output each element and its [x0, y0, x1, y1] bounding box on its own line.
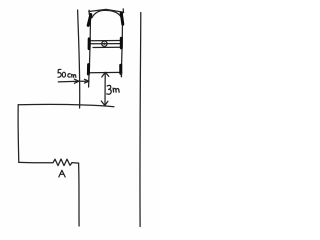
label 50cm : digit 0	[62, 72, 65, 77]
wire: loop bottom lead to resistor	[19, 161, 53, 163]
extension line below rear-right wheel	[120, 73, 122, 77]
wire: resistor to corner	[72, 162, 79, 165]
dimension 50cm lead line	[58, 80, 79, 83]
dimension 50cm arrowhead at car line	[85, 79, 89, 83]
dimension 3m top arrowhead	[102, 72, 109, 77]
axle line upper	[91, 40, 120, 42]
car top-left corner tick	[88, 10, 90, 14]
wheel mid-left	[88, 39, 91, 49]
dimension 50cm arrowhead at road line	[74, 79, 79, 83]
wheel front-right	[121, 13, 123, 24]
label 50cm : letter m	[72, 74, 76, 77]
resistor A zigzag	[53, 159, 72, 166]
car top-right corner tick	[122, 9, 124, 13]
car rear bottom line	[89, 71, 121, 73]
wheel front-left	[88, 15, 91, 26]
car front top line	[89, 9, 124, 12]
extension line below rear-left wheel	[88, 74, 90, 87]
wheel mid-right	[120, 38, 123, 48]
label 3m : digit 3	[107, 85, 111, 94]
wire: horizontal sensor wire across road	[18, 104, 114, 106]
dimension 3m bottom arrowhead	[101, 101, 108, 106]
axle line middle	[91, 43, 120, 45]
wire: left road line top segment	[78, 10, 80, 108]
dimension 50cm inner segment	[81, 80, 89, 82]
wheel rear-right	[119, 65, 122, 73]
label 50cm : digit 5	[58, 69, 61, 77]
car body left side	[89, 14, 90, 74]
axle line lower	[93, 46, 120, 48]
label 3m : letter m	[113, 88, 119, 92]
label 50cm : letter c	[68, 74, 71, 77]
dimension 3m vertical line	[104, 74, 106, 105]
car body right side	[121, 13, 122, 77]
motor circle	[102, 41, 107, 46]
wheel rear-left	[87, 65, 90, 74]
wire: right road line	[139, 13, 142, 227]
wire: loop left vertical	[17, 105, 20, 163]
label A (ammeter)	[59, 170, 65, 177]
car windshield arc	[92, 10, 121, 17]
motor circle center dot	[103, 43, 105, 45]
wire: left road line bottom segment	[78, 163, 81, 226]
